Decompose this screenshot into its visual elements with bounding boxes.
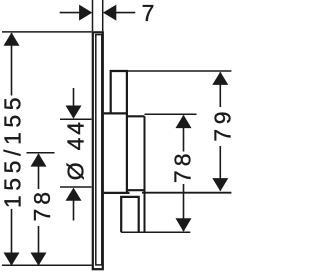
arrowhead 78 right top (points up) [176, 115, 192, 128]
dim 7: left arrow tail [60, 12, 81, 14]
dim 79: top reference line [127, 70, 231, 72]
valve sleeve upper block [111, 71, 127, 193]
dim 78 mid: dimension line [38, 154, 40, 265]
arrowhead Ø44 top (points down) [66, 106, 82, 119]
dim 7: left extension line [92, 0, 94, 31]
svg-text:79: 79 [209, 107, 234, 142]
svg-text:155/155: 155/155 [0, 93, 26, 208]
dim 155: dimension line [11, 33, 13, 265]
dim 78 right: top reference line [145, 113, 197, 115]
svg-text:78: 78 [29, 188, 55, 222]
arrowhead 78 mid top (points up) [31, 153, 47, 166]
dim Ø44: lower stem [73, 200, 75, 221]
dim 79: bottom reference line [142, 192, 231, 194]
dim Ø44: top reference line [60, 118, 92, 120]
arrowhead 79 bottom (points down) [212, 178, 228, 191]
dim Ø44: upper stem [73, 88, 75, 107]
handle bottom edge [104, 192, 130, 194]
line under sleeve [104, 112, 127, 114]
dim 155: top extension line [2, 31, 92, 33]
svg-text:7: 7 [142, 0, 155, 26]
lower block [121, 197, 139, 232]
dim 78 right: bottom extension line [121, 231, 190, 233]
dim 7: right arrow tail [115, 12, 135, 14]
handle front bottom edge [127, 189, 145, 191]
arrowhead 155 top (points up) [4, 33, 20, 46]
wall plate inner sleeve line [96, 35, 102, 265]
dim 79: dimension line [219, 72, 221, 191]
dim 155/78: bottom extension line [2, 264, 92, 266]
arrowhead 78 right bottom (points down) [176, 218, 192, 231]
arrowhead Ø44 bottom (points up) [66, 188, 82, 201]
svg-text:Ø 44: Ø 44 [62, 119, 88, 180]
handle front right edge [144, 116, 146, 232]
arrowhead 155 bottom (points down) [4, 253, 20, 266]
arrowhead 78 mid bottom (points down) [31, 253, 47, 266]
dim 7: right extension line [102, 0, 104, 31]
arrowhead dim7 left (points right) [79, 5, 92, 21]
dim Ø44: bottom reference line [60, 186, 92, 188]
handle front top edge [127, 115, 145, 117]
wall plate outer rectangle [93, 32, 103, 269]
arrowhead 79 top (points up) [212, 72, 228, 85]
svg-text:78: 78 [170, 150, 196, 184]
arrowhead dim7 right (points left) [103, 5, 116, 21]
dim 78 right: dimension line [183, 116, 185, 232]
dim 78 mid: top reference line (axis) [27, 152, 55, 154]
